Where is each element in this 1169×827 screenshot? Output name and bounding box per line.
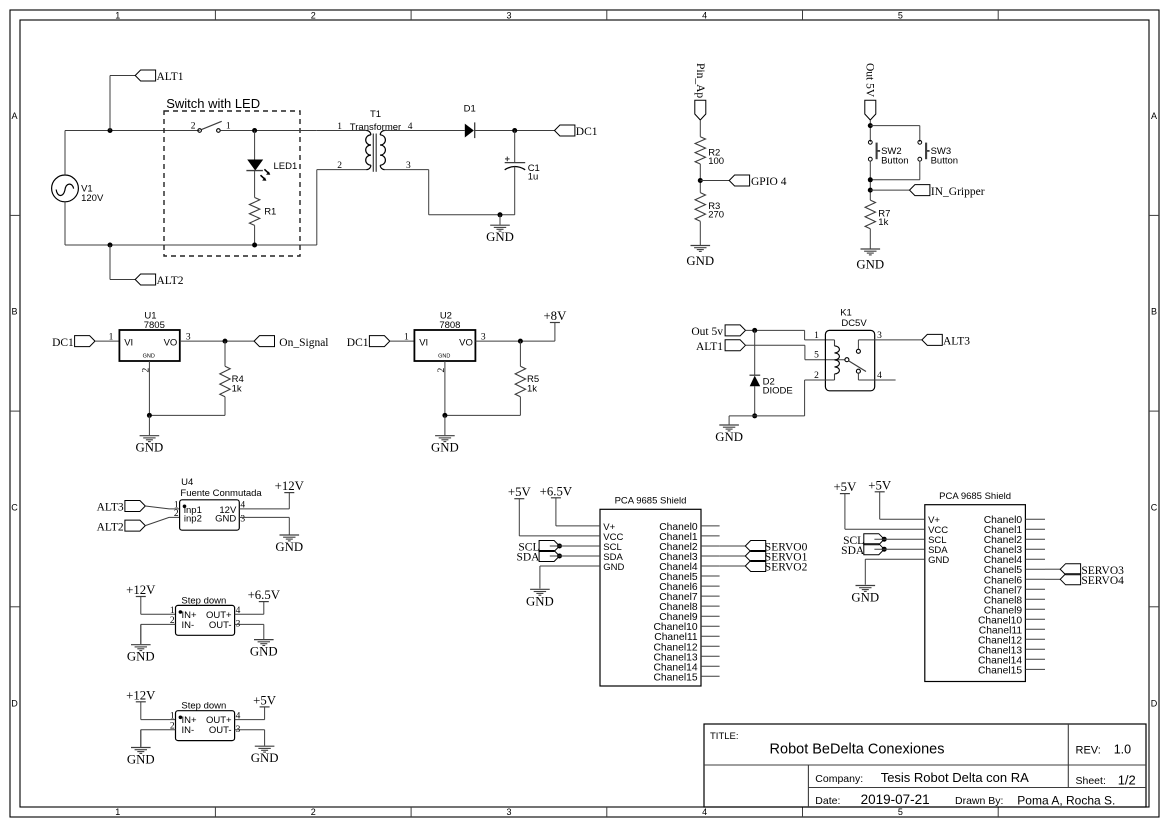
- wire: [385, 130, 465, 132]
- wire: [140, 702, 142, 720]
- svg-text:2: 2: [142, 368, 152, 373]
- power symbol +6.5V: [259, 601, 269, 603]
- power symbol +5V: [260, 706, 270, 708]
- wire: [316, 170, 318, 245]
- svg-text:IN-: IN-: [182, 620, 195, 631]
- svg-text:2019-07-21: 2019-07-21: [861, 792, 930, 807]
- svg-text:T1: T1: [370, 109, 381, 120]
- svg-text:DC1: DC1: [347, 337, 369, 349]
- wire: [875, 339, 922, 341]
- module PCA 9685 Shield 2: [925, 505, 1026, 682]
- svg-text:5: 5: [898, 807, 903, 817]
- svg-text:GND: GND: [686, 254, 714, 268]
- svg-text:SDA: SDA: [841, 545, 865, 557]
- junction: [108, 128, 113, 133]
- switch SW1: [198, 129, 202, 133]
- svg-text:+5V: +5V: [508, 485, 532, 499]
- relay K1 coil: [834, 340, 836, 346]
- wire: [700, 180, 729, 182]
- junction: [512, 128, 517, 133]
- wire: [475, 340, 555, 342]
- wire: [870, 125, 920, 127]
- svg-text:Sheet:: Sheet:: [1076, 775, 1106, 787]
- svg-text:+8V: +8V: [543, 309, 567, 323]
- power symbol +12V: [136, 596, 146, 598]
- wire: [518, 499, 520, 536]
- junction: [557, 554, 562, 559]
- svg-text:D: D: [1151, 699, 1158, 709]
- wire: [699, 120, 701, 137]
- frame zone row ticks: [10, 214, 20, 216]
- power symbol +12V: [136, 701, 146, 703]
- svg-text:ALT2: ALT2: [97, 521, 124, 533]
- wire: [865, 558, 925, 560]
- svg-text:Robot BeDelta Conexiones: Robot BeDelta Conexiones: [770, 742, 945, 758]
- resistor R1: [249, 198, 259, 226]
- wire: [235, 613, 264, 615]
- svg-text:7805: 7805: [144, 320, 165, 331]
- svg-text:PCA 9685 Shield: PCA 9685 Shield: [939, 491, 1011, 502]
- shield 1 channel stubs: [701, 525, 720, 527]
- wire: [140, 597, 142, 615]
- LED D LED1: [248, 160, 262, 170]
- converter step down 2: [176, 711, 235, 741]
- diode D2: [754, 330, 756, 375]
- svg-text:DC5V: DC5V: [841, 318, 867, 329]
- net flag GPIO 4: [729, 175, 749, 186]
- wire: [235, 623, 264, 625]
- junction: [498, 212, 503, 217]
- ground: [856, 585, 876, 587]
- svg-text:D1: D1: [464, 104, 476, 115]
- svg-text:1: 1: [404, 332, 409, 342]
- svg-text:GND: GND: [715, 430, 743, 444]
- ground: [699, 221, 701, 245]
- svg-text:2: 2: [191, 122, 196, 132]
- svg-text:IN_Gripper: IN_Gripper: [931, 186, 985, 198]
- wire: [180, 340, 254, 342]
- svg-text:TITLE:: TITLE:: [710, 731, 739, 742]
- switch SW3: [918, 140, 922, 144]
- svg-text:GND: GND: [127, 753, 155, 767]
- svg-text:Poma A, Rocha S.: Poma A, Rocha S.: [1017, 794, 1115, 808]
- wire: [235, 729, 265, 731]
- svg-text:+12V: +12V: [126, 583, 156, 597]
- junction: [223, 339, 228, 344]
- svg-text:1: 1: [337, 122, 342, 132]
- svg-text:ALT2: ALT2: [157, 275, 184, 287]
- wire: [317, 130, 367, 132]
- junction: [252, 243, 257, 248]
- svg-text:Fuente Conmutada: Fuente Conmutada: [180, 488, 262, 499]
- wire: [239, 508, 289, 510]
- svg-text:DC1: DC1: [52, 337, 74, 349]
- svg-text:7808: 7808: [439, 320, 460, 331]
- wire: [1045, 568, 1060, 570]
- svg-text:GND: GND: [136, 441, 164, 455]
- junction: [868, 188, 873, 193]
- wire: [254, 171, 256, 198]
- svg-text:Step down: Step down: [181, 701, 226, 712]
- svg-text:Pin_Ap: Pin_Ap: [694, 63, 706, 98]
- net flag IN_Gripper: [910, 185, 930, 196]
- svg-text:REV:: REV:: [1076, 745, 1101, 757]
- svg-text:1u: 1u: [528, 172, 539, 183]
- diode D1: [465, 124, 474, 138]
- svg-text:GND: GND: [431, 441, 459, 455]
- wire: [550, 555, 600, 557]
- svg-text:ALT3: ALT3: [97, 502, 124, 514]
- svg-text:K1: K1: [840, 307, 852, 318]
- svg-text:5: 5: [898, 10, 903, 20]
- svg-text:Step down: Step down: [181, 595, 226, 606]
- wire: [869, 120, 871, 142]
- net flag On_Signal: [254, 336, 274, 347]
- svg-text:C: C: [11, 503, 18, 513]
- svg-text:Tesis Robot Delta con RA: Tesis Robot Delta con RA: [881, 770, 1029, 785]
- svg-text:OUT-: OUT-: [209, 620, 232, 631]
- wire: [746, 329, 805, 331]
- regulator U1 7805: [119, 330, 179, 361]
- svg-text:1/2: 1/2: [1118, 773, 1136, 788]
- ground: [728, 416, 730, 425]
- svg-text:270: 270: [708, 210, 724, 221]
- svg-text:DIODE: DIODE: [763, 385, 793, 396]
- wire: [720, 545, 746, 547]
- wire: [720, 555, 746, 557]
- svg-text:2: 2: [311, 807, 316, 817]
- svg-text:GND: GND: [275, 540, 303, 554]
- wire: [1045, 578, 1060, 580]
- wire: [64, 131, 66, 176]
- relay K1: [825, 330, 874, 390]
- frame zone column ticks: [214, 10, 216, 20]
- junction: [108, 243, 113, 248]
- svg-text:GND: GND: [438, 354, 450, 360]
- wire: [919, 161, 921, 180]
- power symbol +5V: [514, 498, 524, 500]
- ground: [263, 624, 265, 639]
- wire: [224, 397, 226, 416]
- svg-text:R1: R1: [264, 207, 276, 218]
- svg-text:1: 1: [115, 10, 120, 20]
- title block border: [704, 724, 1146, 807]
- dashed enclosure Switch with LED: [164, 111, 300, 256]
- net flag SERVO0: [745, 541, 765, 552]
- svg-text:OUT-: OUT-: [209, 725, 232, 736]
- svg-text:inp2: inp2: [184, 514, 202, 525]
- junction: [518, 339, 523, 344]
- net flag SERVO1: [745, 551, 765, 562]
- wire: [64, 202, 66, 245]
- wire: [869, 161, 871, 200]
- svg-text:2: 2: [437, 368, 447, 373]
- net flag SERVO2: [745, 561, 765, 572]
- svg-text:Chanel15: Chanel15: [978, 665, 1022, 676]
- svg-text:Date:: Date:: [815, 795, 840, 807]
- svg-text:ALT1: ALT1: [696, 341, 723, 353]
- ground: [444, 415, 446, 435]
- net flag DC1: [555, 125, 575, 136]
- svg-text:+6.5V: +6.5V: [248, 588, 281, 602]
- junction: [882, 537, 887, 542]
- converter step down 1: [176, 605, 235, 635]
- wire: [720, 565, 746, 567]
- svg-text:2: 2: [174, 509, 179, 519]
- wire: [555, 498, 557, 526]
- shield 2 channel stubs: [1025, 518, 1045, 520]
- wire: [874, 548, 924, 550]
- wire: [109, 245, 111, 280]
- wire: [145, 506, 179, 509]
- wire: [746, 344, 805, 346]
- wire: [239, 516, 289, 518]
- ground: [530, 588, 550, 590]
- svg-text:4: 4: [702, 807, 707, 817]
- svg-text:C: C: [1151, 503, 1158, 513]
- wire: [220, 130, 316, 132]
- resistor R2: [695, 137, 705, 164]
- svg-text:+5V: +5V: [868, 478, 892, 492]
- net flag ALT1: [135, 70, 155, 81]
- relay K1 contacts: [845, 358, 849, 362]
- svg-text:+12V: +12V: [275, 479, 305, 493]
- svg-text:1: 1: [170, 711, 175, 721]
- junction: [442, 413, 447, 418]
- wire: [879, 492, 881, 519]
- net flag SERVO4: [1060, 574, 1080, 585]
- converter U4 Fuente Conmutada: [180, 500, 240, 530]
- svg-text:GND: GND: [928, 555, 949, 566]
- svg-text:GND: GND: [215, 514, 236, 525]
- wire: [148, 361, 150, 415]
- svg-text:1: 1: [109, 332, 114, 342]
- svg-text:B: B: [11, 307, 17, 317]
- svg-text:A: A: [1151, 111, 1157, 121]
- transformer T1: [367, 131, 371, 135]
- svg-text:DC1: DC1: [576, 126, 598, 138]
- svg-text:Out 5v: Out 5v: [691, 326, 723, 338]
- svg-text:PCA 9685 Shield: PCA 9685 Shield: [615, 496, 687, 507]
- svg-text:U4: U4: [181, 477, 193, 488]
- wire: [699, 164, 701, 193]
- svg-text:Switch with LED: Switch with LED: [166, 96, 260, 111]
- svg-text:+5V: +5V: [833, 480, 857, 494]
- resistor R3: [695, 193, 705, 222]
- svg-text:1: 1: [170, 606, 175, 616]
- svg-text:2: 2: [311, 10, 316, 20]
- svg-text:Out 5V: Out 5V: [864, 63, 876, 98]
- junction: [557, 544, 562, 549]
- net flag ALT3: [922, 334, 942, 345]
- svg-text:+5V: +5V: [253, 693, 277, 707]
- wire: [844, 494, 846, 530]
- wire: [385, 169, 429, 171]
- net flag ALT2: [135, 274, 155, 285]
- svg-text:IN-: IN-: [182, 725, 195, 736]
- title block divider lines: [704, 764, 1146, 766]
- wire: [254, 225, 256, 245]
- wire: [254, 131, 256, 160]
- svg-text:Button: Button: [931, 156, 958, 167]
- svg-text:Button: Button: [881, 156, 908, 167]
- wire: [141, 729, 176, 731]
- svg-text:VI: VI: [419, 337, 428, 348]
- svg-text:3: 3: [506, 10, 511, 20]
- wire: [145, 517, 179, 525]
- svg-text:+12V: +12V: [126, 688, 156, 702]
- svg-text:100: 100: [708, 156, 724, 167]
- svg-text:On_Signal: On_Signal: [279, 337, 328, 349]
- wire: [519, 397, 521, 416]
- wire: [390, 340, 415, 342]
- svg-text:D: D: [11, 699, 18, 709]
- svg-text:+6.5V: +6.5V: [540, 484, 573, 498]
- wire: [235, 719, 265, 721]
- svg-text:LED1: LED1: [274, 161, 298, 172]
- svg-text:VI: VI: [124, 337, 133, 348]
- svg-text:Drawn By:: Drawn By:: [955, 795, 1003, 807]
- wire: [519, 341, 521, 366]
- power symbol +12V: [284, 492, 294, 494]
- capacitor C1: [514, 131, 516, 163]
- svg-text:ALT1: ALT1: [157, 71, 184, 83]
- wire: [540, 565, 600, 567]
- svg-text:1: 1: [814, 331, 819, 341]
- junction: [882, 547, 887, 552]
- junction: [868, 177, 873, 182]
- svg-text:1k: 1k: [527, 384, 537, 395]
- junction: [147, 413, 152, 418]
- svg-text:SERVO4: SERVO4: [1081, 575, 1124, 587]
- svg-text:VO: VO: [164, 337, 178, 348]
- svg-text:Company:: Company:: [815, 773, 863, 785]
- svg-text:GND: GND: [851, 591, 879, 605]
- ground: [869, 229, 871, 249]
- wire: [874, 538, 924, 540]
- wire: [475, 130, 555, 132]
- svg-text:1.0: 1.0: [1114, 743, 1131, 757]
- power symbol +6.5V: [551, 497, 561, 499]
- power symbol +5V: [875, 491, 885, 493]
- svg-text:1k: 1k: [232, 384, 242, 395]
- svg-text:GND: GND: [856, 258, 884, 272]
- module PCA 9685 Shield 1: [600, 509, 701, 686]
- svg-text:2: 2: [337, 161, 342, 171]
- ground: [140, 730, 142, 747]
- net flag SERVO3: [1060, 564, 1080, 575]
- wire: [870, 189, 909, 191]
- ground: [148, 415, 150, 435]
- ground: [140, 624, 142, 644]
- svg-text:GND: GND: [251, 751, 279, 765]
- wire: [550, 545, 600, 547]
- power symbol +5V: [840, 493, 850, 495]
- voltage source V1: [52, 175, 79, 202]
- wire: [224, 341, 226, 366]
- svg-text:GND: GND: [603, 562, 624, 573]
- junction: [752, 413, 757, 418]
- ground: [288, 517, 290, 534]
- svg-text:Transformer: Transformer: [350, 122, 401, 133]
- wire: [95, 340, 119, 342]
- wire: [109, 76, 111, 131]
- junction: [752, 328, 757, 333]
- svg-text:1: 1: [115, 807, 120, 817]
- svg-text:B: B: [1151, 307, 1157, 317]
- wire: [444, 361, 446, 415]
- svg-text:3: 3: [240, 515, 245, 525]
- svg-text:GND: GND: [526, 594, 554, 608]
- wire: [875, 379, 896, 381]
- resistor R7: [865, 200, 875, 229]
- switch SW2: [868, 140, 872, 144]
- ground: [499, 215, 501, 225]
- svg-text:A: A: [11, 111, 17, 121]
- svg-text:SDA: SDA: [516, 552, 540, 564]
- wire: [729, 415, 755, 417]
- resistor R5: [515, 366, 525, 397]
- regulator U2 7808: [414, 330, 475, 361]
- svg-text:GND: GND: [143, 354, 155, 360]
- junction: [698, 178, 703, 183]
- svg-text:Chanel15: Chanel15: [654, 672, 698, 683]
- svg-text:5: 5: [814, 351, 819, 361]
- power symbol +8V: [550, 322, 560, 324]
- svg-text:ALT3: ALT3: [943, 336, 970, 348]
- svg-text:VO: VO: [459, 337, 473, 348]
- wire: [141, 623, 176, 625]
- junction: [868, 123, 873, 128]
- svg-text:3: 3: [506, 807, 511, 817]
- svg-text:GPIO 4: GPIO 4: [751, 176, 787, 188]
- svg-text:4: 4: [702, 10, 707, 20]
- svg-text:120V: 120V: [81, 193, 104, 204]
- wire: [805, 379, 835, 381]
- svg-text:1k: 1k: [878, 217, 888, 228]
- resistor R4: [220, 366, 230, 397]
- ground: [264, 730, 266, 746]
- svg-text:GND: GND: [127, 650, 155, 664]
- junction: [252, 128, 257, 133]
- svg-text:SERVO2: SERVO2: [765, 562, 808, 574]
- svg-text:GND: GND: [250, 645, 278, 659]
- svg-text:GND: GND: [486, 230, 514, 244]
